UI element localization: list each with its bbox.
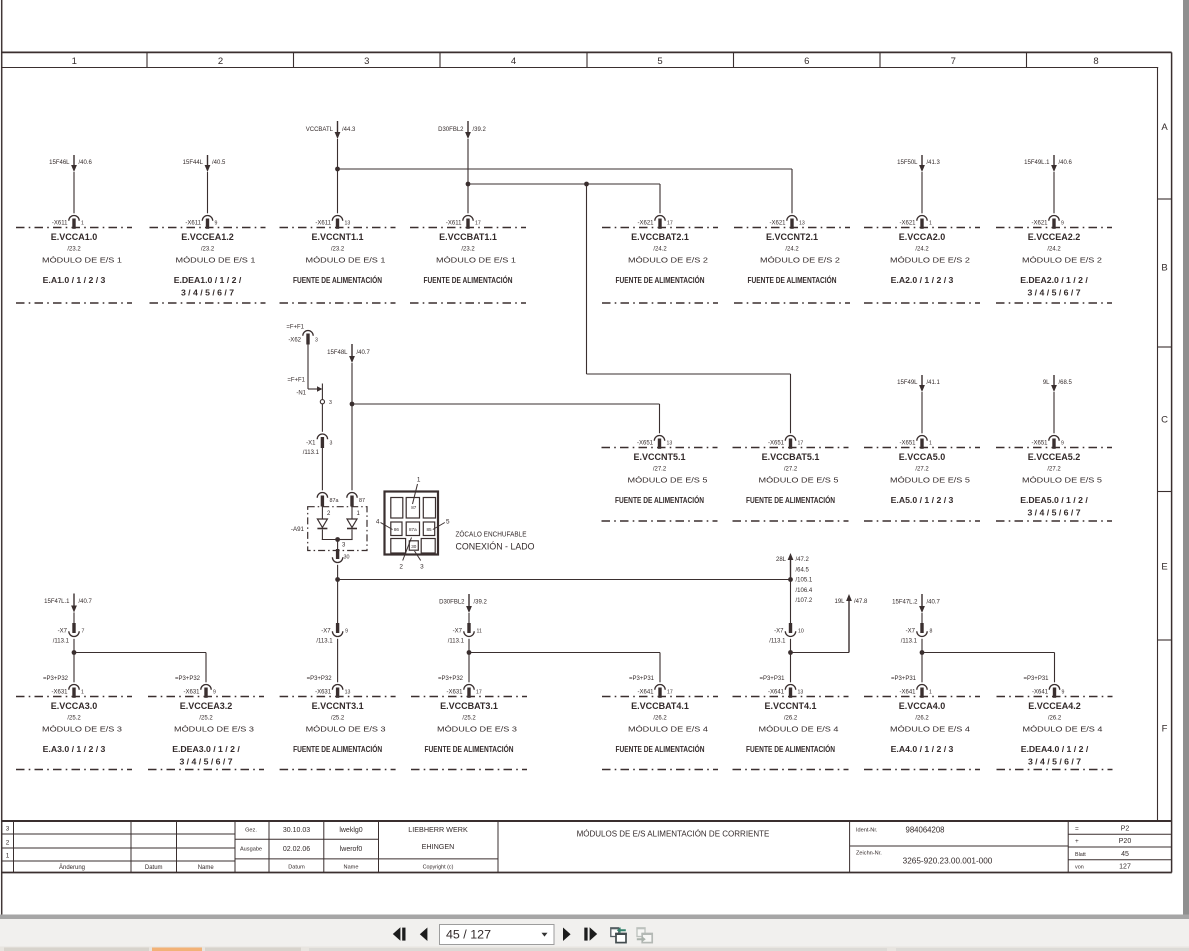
viewer pane separator — [0, 915, 1189, 920]
title block ident section — [850, 826, 1069, 866]
wire — [468, 639, 470, 683]
signal arrow 15F49L — [897, 375, 940, 392]
svg-text:13: 13 — [345, 220, 351, 226]
svg-text:MÓDULOS DE E/S ALIMENTACIÓN DE: MÓDULOS DE E/S ALIMENTACIÓN DE CORRIENTE — [577, 830, 770, 839]
svg-text:-X631: -X631 — [51, 689, 68, 695]
svg-text:-X611: -X611 — [52, 220, 68, 226]
svg-text:MÓDULO DE E/S 3: MÓDULO DE E/S 3 — [42, 725, 122, 734]
wire — [921, 639, 923, 683]
svg-text:MÓDULO DE E/S 4: MÓDULO DE E/S 4 — [628, 725, 708, 734]
svg-text:/27.2: /27.2 — [915, 467, 929, 473]
svg-text:15F47L.1: 15F47L.1 — [44, 599, 70, 605]
svg-text:D30FBL2: D30FBL2 — [439, 600, 465, 606]
svg-text:-X7: -X7 — [774, 629, 784, 635]
svg-text:lweklg0: lweklg0 — [339, 827, 362, 834]
connector -X1 pin 3 — [303, 434, 333, 456]
viewer toolbar next button — [563, 928, 571, 942]
svg-text:-X7: -X7 — [453, 629, 463, 635]
module E.VCCA2.0 — [864, 215, 980, 303]
svg-text:2: 2 — [399, 564, 403, 571]
connector pin 30 — [332, 540, 349, 563]
svg-text:E.DEA4.0 / 1 / 2 /: E.DEA4.0 / 1 / 2 / — [1021, 744, 1089, 754]
frame outer right — [1171, 52, 1173, 872]
svg-text:E.VCCEA1.2: E.VCCEA1.2 — [181, 232, 234, 242]
node junction — [335, 167, 340, 172]
svg-text:FUENTE DE ALIMENTACIÓN: FUENTE DE ALIMENTACIÓN — [293, 743, 382, 754]
svg-text:+: + — [1075, 838, 1079, 845]
svg-text:13: 13 — [667, 440, 673, 446]
svg-text:P20: P20 — [1119, 838, 1132, 845]
svg-text:E.VCCNT2.1: E.VCCNT2.1 — [766, 232, 818, 242]
viewer toolbar prev button — [420, 928, 428, 942]
node junction — [788, 577, 793, 582]
sheet left edge line — [1, 0, 3, 915]
svg-text:3 / 4 / 5 / 6 / 7: 3 / 4 / 5 / 6 / 7 — [1027, 508, 1080, 518]
connector -X7 pin 10 — [769, 623, 804, 644]
svg-text:9: 9 — [213, 689, 216, 695]
module E.VCCA3.0 — [16, 676, 132, 770]
module E.VCCEA1.2 — [150, 215, 266, 303]
svg-text:15F48L: 15F48L — [327, 350, 348, 356]
wire — [321, 384, 323, 400]
svg-text:E.VCCA1.0: E.VCCA1.0 — [51, 232, 98, 242]
row divider — [1158, 198, 1172, 200]
svg-text:MÓDULO DE E/S 1: MÓDULO DE E/S 1 — [306, 256, 386, 265]
svg-text:15F50L: 15F50L — [897, 160, 918, 166]
svg-text:B: B — [1161, 263, 1167, 274]
svg-text:/23.2: /23.2 — [461, 247, 475, 253]
svg-text:/40.7: /40.7 — [927, 600, 941, 606]
module E.VCCBAT1.1 — [410, 215, 526, 303]
svg-text:LIEBHERR WERK: LIEBHERR WERK — [408, 825, 468, 834]
svg-text:/23.2: /23.2 — [201, 247, 215, 253]
wire — [73, 172, 75, 213]
svg-text:/25.2: /25.2 — [331, 716, 345, 722]
svg-text:=P3+P31: =P3+P31 — [629, 676, 655, 682]
page number box — [440, 925, 555, 945]
row divider — [1158, 639, 1172, 641]
svg-text:E.DEA1.0 / 1 / 2 /: E.DEA1.0 / 1 / 2 / — [174, 275, 242, 285]
svg-text:MÓDULO DE E/S 5: MÓDULO DE E/S 5 — [890, 476, 970, 485]
row divider — [1158, 491, 1172, 493]
svg-text:3: 3 — [315, 338, 318, 344]
svg-text:MÓDULO DE E/S 1: MÓDULO DE E/S 1 — [42, 256, 122, 265]
module E.VCCA5.0 — [864, 436, 980, 522]
svg-text:Änderung: Änderung — [59, 864, 85, 871]
signal arrow 15F49L.1 — [1024, 155, 1072, 172]
connector pin 87 — [347, 492, 365, 517]
svg-text:Blatt: Blatt — [1075, 852, 1086, 858]
svg-text:=P3+P31: =P3+P31 — [759, 676, 785, 682]
svg-text:/26.2: /26.2 — [653, 716, 667, 722]
svg-text:4: 4 — [376, 519, 380, 526]
svg-text:E.VCCEA4.2: E.VCCEA4.2 — [1028, 701, 1081, 711]
svg-text:E.VCCA3.0: E.VCCA3.0 — [51, 701, 98, 711]
svg-text:1: 1 — [417, 477, 421, 484]
svg-text:87: 87 — [359, 498, 365, 504]
svg-text:/40.7: /40.7 — [79, 599, 93, 605]
wire — [790, 639, 792, 683]
svg-text:Datum: Datum — [288, 865, 305, 871]
signal arrow 15F44L — [183, 155, 226, 172]
svg-text:E.DEA3.0 / 1 / 2 /: E.DEA3.0 / 1 / 2 / — [172, 744, 240, 754]
node junction — [788, 650, 793, 655]
svg-text:3 / 4 / 5 / 6 / 7: 3 / 4 / 5 / 6 / 7 — [1028, 757, 1081, 767]
svg-text:VCCBATL: VCCBATL — [306, 127, 334, 133]
node 3 (open terminal) — [320, 400, 324, 404]
svg-text:E.A1.0 / 1 / 2 / 3: E.A1.0 / 1 / 2 / 3 — [43, 275, 106, 285]
svg-text:7: 7 — [951, 56, 956, 67]
svg-text:MÓDULO DE E/S 4: MÓDULO DE E/S 4 — [890, 725, 970, 734]
svg-text:-X7: -X7 — [58, 629, 68, 635]
svg-text:/26.2: /26.2 — [784, 716, 798, 722]
svg-text:FUENTE DE ALIMENTACIÓN: FUENTE DE ALIMENTACIÓN — [616, 274, 705, 285]
svg-text:3: 3 — [330, 441, 333, 447]
svg-text:D30FBL2: D30FBL2 — [438, 127, 464, 133]
svg-text:E.A3.0 / 1 / 2 / 3: E.A3.0 / 1 / 2 / 3 — [43, 744, 106, 754]
module E.VCCNT1.1 — [280, 215, 396, 303]
wire — [1053, 392, 1055, 433]
svg-text:MÓDULO DE E/S 3: MÓDULO DE E/S 3 — [437, 725, 517, 734]
svg-text:/25.2: /25.2 — [67, 716, 81, 722]
row divider — [1158, 346, 1172, 348]
wire bus to E.VCCBAT4.1 — [469, 652, 660, 654]
wire — [468, 613, 470, 623]
svg-text:/24.2: /24.2 — [1047, 247, 1061, 253]
module E.VCCEA2.2 — [996, 215, 1112, 303]
signal arrow 15F48L — [327, 344, 370, 363]
connector -X62 pin 3 — [286, 324, 318, 344]
svg-text:FUENTE DE ALIMENTACIÓN: FUENTE DE ALIMENTACIÓN — [746, 743, 835, 754]
svg-text:/41.3: /41.3 — [927, 160, 941, 166]
svg-text:E.VCCEA3.2: E.VCCEA3.2 — [180, 701, 233, 711]
signal arrow 19L (up) — [834, 594, 868, 653]
svg-text:2: 2 — [218, 56, 223, 67]
svg-text:E.VCCBAT3.1: E.VCCBAT3.1 — [440, 701, 498, 711]
svg-text:3: 3 — [420, 564, 424, 571]
svg-text:/107.2: /107.2 — [796, 598, 813, 604]
svg-text:E.VCCEA2.2: E.VCCEA2.2 — [1028, 232, 1081, 242]
svg-text:Name: Name — [198, 865, 215, 871]
signal arrow 15F50L — [897, 155, 940, 172]
svg-text:-X621: -X621 — [769, 220, 786, 226]
diode V1 — [317, 507, 327, 529]
svg-text:/23.2: /23.2 — [331, 247, 345, 253]
svg-text:7: 7 — [82, 629, 85, 635]
svg-text:6: 6 — [804, 56, 809, 67]
svg-text:1: 1 — [6, 853, 10, 860]
svg-text:MÓDULO DE E/S 5: MÓDULO DE E/S 5 — [628, 476, 708, 485]
svg-text:/41.1: /41.1 — [927, 380, 941, 386]
svg-text:1: 1 — [929, 689, 932, 695]
revision table — [2, 822, 235, 873]
connector -X7 pin 7 — [53, 623, 85, 644]
svg-text:=P3+P32: =P3+P32 — [175, 676, 201, 682]
wire — [921, 613, 923, 623]
wire — [921, 172, 923, 213]
svg-text:/113.1: /113.1 — [448, 638, 465, 644]
svg-text:-X1: -X1 — [306, 441, 316, 447]
frame outer top — [1, 51, 1172, 53]
svg-text:/44.3: /44.3 — [342, 127, 356, 133]
svg-text:/113.1: /113.1 — [901, 638, 918, 644]
svg-text:=P3+P32: =P3+P32 — [43, 676, 69, 682]
svg-text:E.VCCA5.0: E.VCCA5.0 — [899, 452, 946, 462]
wire — [1053, 172, 1055, 213]
svg-text:EHINGEN: EHINGEN — [422, 842, 455, 851]
svg-text:E.A4.0 / 1 / 2 / 3: E.A4.0 / 1 / 2 / 3 — [891, 744, 954, 754]
svg-text:/24.2: /24.2 — [653, 247, 667, 253]
svg-text:-X651: -X651 — [1031, 440, 1048, 446]
wire — [337, 580, 339, 624]
svg-text:02.02.06: 02.02.06 — [283, 846, 310, 853]
svg-text:=: = — [1075, 826, 1079, 833]
svg-text:MÓDULO DE E/S 3: MÓDULO DE E/S 3 — [306, 725, 386, 734]
node 3 junction — [335, 537, 340, 542]
signal arrow VCCBATL — [306, 121, 356, 139]
svg-text:45: 45 — [1121, 851, 1129, 858]
svg-text:/27.2: /27.2 — [1047, 467, 1061, 473]
node junction — [467, 650, 472, 655]
svg-text:17: 17 — [667, 220, 673, 226]
svg-text:/27.2: /27.2 — [653, 467, 667, 473]
svg-text:-X7: -X7 — [906, 629, 916, 635]
svg-text:1: 1 — [72, 56, 77, 67]
module E.VCCA1.0 — [16, 215, 132, 303]
svg-text:E.VCCNT1.1: E.VCCNT1.1 — [311, 232, 363, 242]
svg-text:E.DEA5.0 / 1 / 2 /: E.DEA5.0 / 1 / 2 / — [1020, 495, 1088, 505]
diode V2 — [347, 507, 357, 529]
node junction — [72, 650, 77, 655]
svg-text:FUENTE DE ALIMENTACIÓN: FUENTE DE ALIMENTACIÓN — [616, 743, 705, 754]
module E.VCCBAT3.1 — [411, 676, 527, 770]
frame ruler bottom — [1, 67, 1158, 69]
viewer toolbar first-page button — [393, 927, 401, 941]
wire — [921, 392, 923, 433]
title block bottom — [1, 872, 1172, 874]
svg-text:2: 2 — [6, 840, 10, 847]
wire — [321, 448, 323, 490]
wire — [351, 363, 353, 490]
svg-text:E.VCCA2.0: E.VCCA2.0 — [899, 232, 946, 242]
svg-text:-X651: -X651 — [768, 440, 785, 446]
svg-text:P2: P2 — [1121, 826, 1130, 833]
svg-text:MÓDULO DE E/S 4: MÓDULO DE E/S 4 — [1023, 725, 1103, 734]
svg-text:-X611: -X611 — [446, 220, 462, 226]
svg-text:17: 17 — [475, 220, 481, 226]
svg-text:/25.2: /25.2 — [462, 716, 476, 722]
wire — [351, 530, 353, 540]
signal arrow 15F47L.1 — [44, 594, 92, 613]
svg-text:Name: Name — [344, 865, 359, 871]
svg-text:3265-920.23.00.001-000: 3265-920.23.00.001-000 — [903, 856, 993, 865]
socket drawing (zocalo enchufable) — [376, 477, 535, 571]
svg-text:4: 4 — [511, 56, 516, 67]
node junction — [584, 182, 589, 187]
svg-text:9: 9 — [1061, 220, 1064, 226]
svg-text:=P3+P31: =P3+P31 — [1023, 676, 1049, 682]
module E.VCCNT2.1 — [734, 215, 850, 303]
next-view icon (disabled) — [636, 927, 653, 942]
svg-text:-X641: -X641 — [637, 689, 654, 695]
svg-text:F: F — [1162, 724, 1168, 735]
svg-text:FUENTE DE ALIMENTACIÓN: FUENTE DE ALIMENTACIÓN — [746, 494, 835, 505]
svg-text:FUENTE DE ALIMENTACIÓN: FUENTE DE ALIMENTACIÓN — [425, 743, 514, 754]
node junction — [920, 650, 925, 655]
svg-text:15F46L: 15F46L — [49, 160, 70, 166]
svg-text:MÓDULO DE E/S 3: MÓDULO DE E/S 3 — [174, 725, 254, 734]
svg-text:-X7: -X7 — [321, 629, 331, 635]
svg-text:E.A2.0 / 1 / 2 / 3: E.A2.0 / 1 / 2 / 3 — [891, 275, 954, 285]
svg-text:-X651: -X651 — [637, 440, 654, 446]
node junction — [466, 182, 471, 187]
ruler divider — [439, 52, 441, 67]
svg-text:11: 11 — [477, 629, 482, 635]
ruler divider — [586, 52, 588, 67]
svg-text:1: 1 — [81, 689, 84, 695]
svg-text:/24.2: /24.2 — [915, 247, 929, 253]
svg-text:/106.4: /106.4 — [796, 588, 813, 594]
wire — [207, 172, 209, 213]
svg-text:-X62: -X62 — [288, 338, 301, 344]
svg-text:3 / 4 / 5 / 6 / 7: 3 / 4 / 5 / 6 / 7 — [179, 757, 232, 767]
frame inner right — [1157, 68, 1159, 822]
svg-text:MÓDULO DE E/S 5: MÓDULO DE E/S 5 — [1022, 476, 1102, 485]
relay module -A91 — [291, 507, 367, 551]
wire — [73, 639, 75, 683]
svg-text:87a: 87a — [330, 498, 339, 504]
svg-text:E.A5.0 / 1 / 2 / 3: E.A5.0 / 1 / 2 / 3 — [891, 495, 954, 505]
svg-text:/113.1: /113.1 — [53, 638, 70, 644]
svg-text:/40.5: /40.5 — [212, 160, 226, 166]
module E.VCCNT3.1 — [280, 676, 396, 770]
svg-text:E.DEA2.0 / 1 / 2 /: E.DEA2.0 / 1 / 2 / — [1020, 275, 1088, 285]
wire — [337, 639, 339, 683]
ruler divider — [879, 52, 881, 67]
svg-text:CONEXIÓN - LADO: CONEXIÓN - LADO — [456, 542, 535, 552]
svg-text:Gez.: Gez. — [245, 827, 257, 833]
svg-text:/40.6: /40.6 — [1059, 160, 1073, 166]
svg-text:984064208: 984064208 — [905, 826, 944, 835]
svg-text:9: 9 — [215, 220, 218, 226]
svg-text:/113.1: /113.1 — [303, 450, 320, 456]
node junction 30-bus — [335, 577, 340, 582]
svg-text:-X621: -X621 — [637, 220, 654, 226]
signal arrow D30FBL2 — [438, 121, 486, 139]
wire bus to E.VCCNT5.1 — [352, 403, 660, 405]
svg-text:/39.2: /39.2 — [473, 127, 487, 133]
svg-text:Ausgabe: Ausgabe — [240, 846, 262, 852]
svg-text:/68.5: /68.5 — [1059, 380, 1073, 386]
svg-text:MÓDULO DE E/S 1: MÓDULO DE E/S 1 — [176, 256, 256, 265]
svg-text:E.VCCA4.0: E.VCCA4.0 — [899, 701, 946, 711]
module E.VCCNT5.1 — [602, 436, 718, 522]
svg-text:15F44L: 15F44L — [183, 160, 204, 166]
svg-text:9: 9 — [1061, 440, 1064, 446]
module E.VCCEA5.2 — [996, 435, 1112, 521]
module E.VCCEA4.2 — [997, 676, 1113, 770]
svg-text:28L: 28L — [776, 557, 787, 563]
svg-text:/25.2: /25.2 — [199, 716, 213, 722]
toolbar background — [0, 919, 1189, 947]
svg-text:/64.5: /64.5 — [796, 567, 810, 573]
svg-text:3: 3 — [364, 56, 369, 67]
svg-text:9: 9 — [345, 629, 348, 635]
svg-text:-X631: -X631 — [315, 689, 332, 695]
svg-text:MÓDULO DE E/S 2: MÓDULO DE E/S 2 — [628, 256, 708, 265]
svg-text:MÓDULO DE E/S 2: MÓDULO DE E/S 2 — [890, 256, 970, 265]
module E.VCCBAT2.1 — [602, 215, 718, 303]
signal arrow 9L — [1043, 375, 1073, 392]
ruler divider — [293, 52, 295, 67]
svg-text:=F+F1: =F+F1 — [286, 324, 304, 330]
connector -X7 pin 11 — [448, 623, 482, 644]
svg-text:5: 5 — [657, 56, 662, 67]
previous-view icon — [610, 927, 627, 942]
svg-text:15F49L: 15F49L — [897, 380, 918, 386]
svg-text:FUENTE DE ALIMENTACIÓN: FUENTE DE ALIMENTACIÓN — [293, 274, 382, 285]
svg-text:17: 17 — [798, 440, 804, 446]
svg-text:5: 5 — [446, 519, 450, 526]
svg-text:3 / 4 / 5 / 6 / 7: 3 / 4 / 5 / 6 / 7 — [181, 288, 234, 298]
connector -X7 pin 9 — [316, 623, 348, 644]
svg-text:=F+F1: =F+F1 — [287, 378, 305, 384]
svg-text:FUENTE DE ALIMENTACIÓN: FUENTE DE ALIMENTACIÓN — [748, 274, 837, 285]
signal arrow 15F47L.2 — [892, 594, 940, 613]
connector pin 87a — [317, 493, 338, 518]
svg-text:3 / 4 / 5 / 6 / 7: 3 / 4 / 5 / 6 / 7 — [1027, 288, 1080, 298]
wire — [321, 530, 323, 540]
connector -X7 pin 8 — [901, 623, 933, 644]
title block sheet section — [1068, 826, 1172, 871]
svg-text:87: 87 — [411, 505, 417, 510]
svg-text:FUENTE DE ALIMENTACIÓN: FUENTE DE ALIMENTACIÓN — [424, 274, 513, 285]
svg-text:lwerof0: lwerof0 — [340, 846, 363, 853]
svg-text:FUENTE DE ALIMENTACIÓN: FUENTE DE ALIMENTACIÓN — [615, 494, 704, 505]
svg-text:-X611: -X611 — [315, 220, 331, 226]
svg-text:-X611: -X611 — [185, 220, 201, 226]
module E.VCCBAT4.1 — [602, 676, 718, 770]
svg-text:1: 1 — [929, 220, 932, 226]
ruler divider — [146, 52, 148, 67]
svg-text:13: 13 — [799, 220, 805, 226]
svg-text:30: 30 — [344, 555, 350, 561]
viewer toolbar last-page button — [584, 928, 587, 941]
svg-text:von: von — [1075, 865, 1084, 871]
svg-text:E.VCCEA5.2: E.VCCEA5.2 — [1028, 452, 1081, 462]
svg-text:E.VCCNT3.1: E.VCCNT3.1 — [312, 701, 364, 711]
svg-text:/47.2: /47.2 — [796, 557, 810, 563]
wire bus to E.VCCEA3.2 — [74, 652, 206, 654]
svg-text:E: E — [1161, 562, 1167, 573]
ruler divider — [1026, 52, 1028, 67]
svg-text:-X621: -X621 — [899, 220, 916, 226]
module E.VCCNT4.1 — [733, 676, 849, 770]
svg-text:/113.1: /113.1 — [769, 638, 786, 644]
svg-text:MÓDULO DE E/S 5: MÓDULO DE E/S 5 — [759, 476, 839, 485]
svg-text:17: 17 — [667, 689, 673, 695]
svg-text:E.VCCNT4.1: E.VCCNT4.1 — [764, 701, 816, 711]
svg-text:-X651: -X651 — [899, 440, 916, 446]
wire — [337, 139, 339, 213]
svg-text:9: 9 — [1062, 689, 1065, 695]
svg-text:/24.2: /24.2 — [785, 247, 799, 253]
svg-text:/23.2: /23.2 — [67, 247, 81, 253]
svg-text:-X631: -X631 — [446, 689, 463, 695]
svg-text:Ident-Nr.: Ident-Nr. — [856, 827, 878, 833]
svg-text:E.VCCNT5.1: E.VCCNT5.1 — [633, 452, 685, 462]
svg-text:=P3+P32: =P3+P32 — [307, 676, 333, 682]
